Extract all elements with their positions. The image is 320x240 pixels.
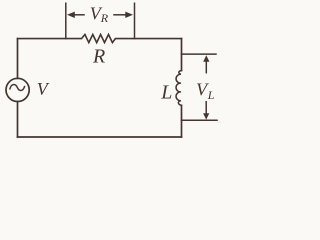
svg-text:L: L	[160, 81, 172, 103]
svg-text:L: L	[207, 88, 215, 102]
svg-text:V: V	[37, 79, 50, 99]
svg-text:R: R	[100, 11, 109, 25]
svg-text:R: R	[92, 46, 105, 68]
